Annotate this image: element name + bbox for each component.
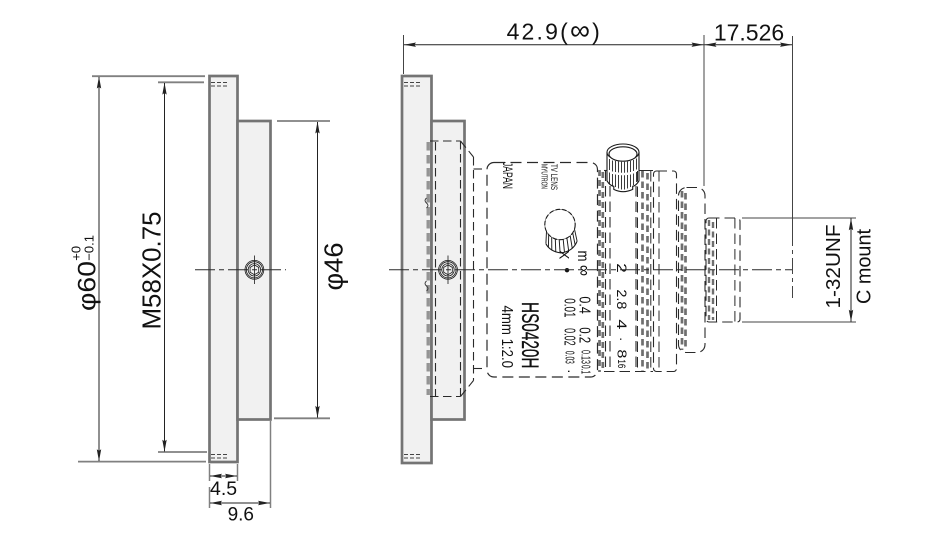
dim text phi46 — [321, 243, 349, 291]
C-mount right step line — [734, 218, 736, 322]
rear ring B inner line — [658, 171, 660, 372]
m infinity labels — [574, 251, 591, 262]
dim 9.6 extension line right — [270, 421, 272, 508]
thread relief marks top right view — [404, 83, 420, 87]
C-mount extension line bottom — [742, 321, 856, 323]
dim phi46 extension bottom — [274, 417, 330, 419]
svg-text:0.01: 0.01 — [561, 298, 578, 317]
C-mount step line — [716, 218, 718, 322]
rear plate side view — [432, 121, 465, 420]
screw hole right view — [439, 256, 458, 285]
aperture thumbscrew — [607, 144, 639, 192]
flange plate front (phi60) — [210, 76, 238, 462]
dim 9.6 line with arrows — [210, 502, 270, 504]
C-mount extension line top — [742, 217, 856, 219]
focus ring knurling — [600, 170, 603, 372]
thread break squiggle top — [425, 198, 428, 208]
dim M58 extension top — [158, 81, 204, 83]
dim 9.6 extension line left — [209, 487, 211, 508]
dim M58 line with arrows — [164, 83, 166, 452]
dim text M58X0.75 — [137, 212, 167, 330]
dim phi60 extension top — [92, 75, 205, 77]
dim phi60 line with arrows — [98, 77, 100, 461]
svg-text:·: · — [614, 337, 629, 341]
aperture ring knurling — [643, 171, 648, 371]
svg-text:2: 2 — [614, 263, 630, 273]
svg-text:·: · — [562, 369, 578, 374]
small logo text — [540, 164, 549, 189]
aperture ring border — [637, 171, 639, 371]
svg-text:2.8: 2.8 — [614, 289, 630, 309]
hidden front cell rectangle — [430, 141, 461, 397]
dim 4.5 line with arrows — [210, 475, 237, 477]
svg-text:MYUTRON: MYUTRON — [540, 164, 549, 189]
label 1-32UNF — [823, 225, 845, 309]
svg-text:42.9(∞): 42.9(∞) — [507, 14, 602, 45]
screw hole left view — [245, 256, 264, 285]
C-mount thread relief lines — [709, 220, 713, 320]
svg-text:4.5: 4.5 — [210, 478, 237, 500]
dim 17.526 line with arrows — [705, 44, 793, 46]
svg-text:m: m — [574, 251, 591, 262]
thread relief marks bottom — [211, 455, 227, 459]
svg-text:9.6: 9.6 — [228, 505, 254, 526]
thumbscrew knurl lines — [610, 159, 637, 190]
svg-text:JAPAN: JAPAN — [500, 162, 516, 189]
dim 42.9 extension left — [403, 35, 405, 74]
svg-text:17.526: 17.526 — [714, 19, 784, 45]
main focus ring barrel outline — [487, 163, 598, 378]
focus scale column right (0.4 0.2 0.13 0.1) — [576, 296, 593, 314]
rear ring B — [654, 171, 677, 372]
flange plate side view — [402, 76, 432, 463]
svg-text:1-32UNF: 1-32UNF — [823, 225, 845, 309]
rear ring C rounded — [679, 188, 706, 353]
aperture index strip — [604, 171, 653, 372]
svg-text:TV LENS: TV LENS — [549, 164, 559, 190]
svg-text:16: 16 — [615, 359, 627, 368]
thread relief marks top — [211, 83, 227, 87]
svg-text:M58X0.75: M58X0.75 — [137, 212, 167, 330]
dim phi46 extension top — [277, 120, 330, 122]
aperture ring right border — [650, 171, 652, 371]
C-mount dim line with arrows — [850, 219, 852, 322]
svg-text:X: X — [557, 250, 573, 260]
thread break squiggle bottom — [425, 281, 428, 291]
dim text phi60 with tolerance — [69, 235, 102, 311]
svg-text:4mm 1:2.0: 4mm 1:2.0 — [498, 306, 515, 369]
centerline horizontal right view — [389, 269, 792, 271]
svg-text:φ60: φ60 — [74, 261, 102, 311]
model label HS0420H — [516, 302, 543, 369]
dim 4.5 extension lines — [210, 464, 238, 481]
rear ring C knurl — [682, 191, 686, 350]
focus index X — [557, 250, 573, 260]
svg-text:−0.1: −0.1 — [82, 235, 97, 261]
svg-text:8: 8 — [615, 349, 629, 358]
aperture scale numbers — [614, 263, 630, 273]
dim M58 extension bottom — [158, 451, 207, 453]
focus index dots — [565, 268, 569, 272]
centerline horizontal left view — [195, 269, 286, 271]
JAPAN label — [500, 162, 516, 189]
svg-text:C mount: C mount — [854, 229, 876, 304]
image plane line — [792, 36, 794, 230]
rear plate (phi46) — [238, 121, 271, 420]
svg-text:0.02: 0.02 — [561, 328, 578, 346]
svg-text:0.13: 0.13 — [578, 350, 592, 364]
thread relief marks bottom right view — [404, 455, 420, 459]
svg-text:φ46: φ46 — [321, 243, 349, 291]
hidden thread strip (M58 thread, gray dashed) — [427, 142, 430, 395]
hidden step cone edges — [461, 141, 487, 397]
focus scale column left (0.01 0.02 0.03 .) — [561, 298, 578, 317]
svg-text:0.03: 0.03 — [563, 351, 577, 364]
model label 4mm 1:2.0 — [498, 306, 515, 369]
svg-text:0.1: 0.1 — [578, 365, 592, 374]
svg-text:4: 4 — [614, 319, 630, 329]
dim phi60 extension bottom — [78, 461, 206, 463]
dim phi46 line with arrows — [317, 122, 319, 418]
focus lock knob — [545, 209, 577, 253]
svg-text:HS0420H: HS0420H — [516, 302, 543, 369]
svg-text:∞: ∞ — [575, 265, 595, 276]
focus knob knurl ticks — [546, 229, 577, 253]
dim 42.9 extension right (mount face) — [703, 35, 705, 186]
label C mount — [854, 229, 876, 304]
C-mount thread cylinder — [706, 218, 740, 322]
dim 42.9 line with arrows — [404, 44, 704, 46]
